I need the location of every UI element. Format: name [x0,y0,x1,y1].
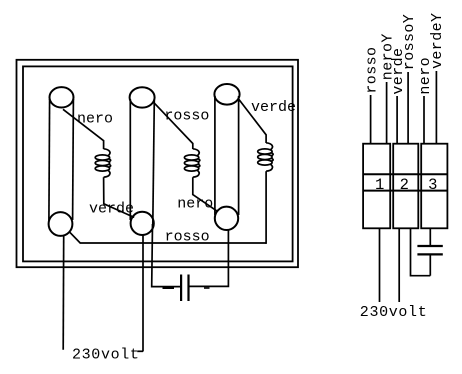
capacitor C1 lead tick right [204,287,210,289]
svg-text:rosso: rosso [164,108,209,125]
wire lead rosso [370,95,372,145]
wire terminal1 to 230V [379,228,381,302]
pole P1 body [48,99,51,221]
wire lead verdeY [435,71,437,145]
pole P2 top ellipse [130,87,155,107]
wire W2 rosso end [154,103,192,149]
motor frame outer [17,60,299,267]
pole P1 bottom circle [49,212,73,236]
pole P3 bottom circle [215,207,238,230]
svg-text:rosso: rosso [165,228,210,245]
motor frame inner [23,66,293,261]
svg-text:3: 3 [428,176,437,194]
wire W1 nero end [63,109,104,149]
pole P3 top ellipse [214,84,239,105]
svg-text:2: 2 [400,176,409,194]
coil L3 [258,143,273,171]
svg-text:rossoY: rossoY [401,14,418,70]
wire lead nero [423,96,425,145]
wire capacitor C2 lower lead [429,256,431,276]
wire pole1 to 230V [62,236,65,350]
wire capacitor to pole2 [152,224,181,287]
wire rosso bus [70,232,266,243]
wire pole3 to capacitor [189,230,228,287]
pole P2 bottom circle [131,212,154,235]
svg-text:230volt: 230volt [360,304,428,321]
svg-text:verdeY: verdeY [429,13,446,69]
coil L1 [95,149,110,177]
wire terminal2 to capacitor C2 [411,228,431,275]
capacitor C1 lead tick left [163,287,175,289]
svg-text:nero: nero [77,110,113,127]
coil L2 [184,149,199,177]
wire terminal3 to capacitor C2 [429,228,431,245]
svg-text:230volt: 230volt [72,346,140,363]
svg-text:1: 1 [375,176,384,194]
wire pole2 to 230V [142,235,144,352]
capacitor C1 [180,275,182,302]
pole P1 top ellipse [50,87,74,107]
pole P3 body [214,96,216,215]
svg-text:rosso: rosso [363,47,380,94]
terminal block col 2 [393,144,418,229]
wire lead rossoY [407,72,409,144]
capacitor C2 [417,245,442,247]
svg-text:verde: verde [89,200,134,217]
terminal block row line lower [363,190,447,192]
wire lead verde [396,96,398,144]
svg-text:verde: verde [251,99,296,116]
wire W3 rosso drop [265,171,267,244]
wire W1 verde end [104,177,135,217]
wire W2 nero end [193,177,217,211]
wire lead neroY [386,82,388,145]
wire terminal2 to 230V [398,228,400,302]
svg-text:nero: nero [177,196,213,213]
pole P2 body [129,99,131,220]
terminal block row line upper [363,173,447,175]
terminal block col 3 [421,144,447,229]
wire W3 verde end [239,99,267,143]
terminal block col 1 [363,144,390,229]
